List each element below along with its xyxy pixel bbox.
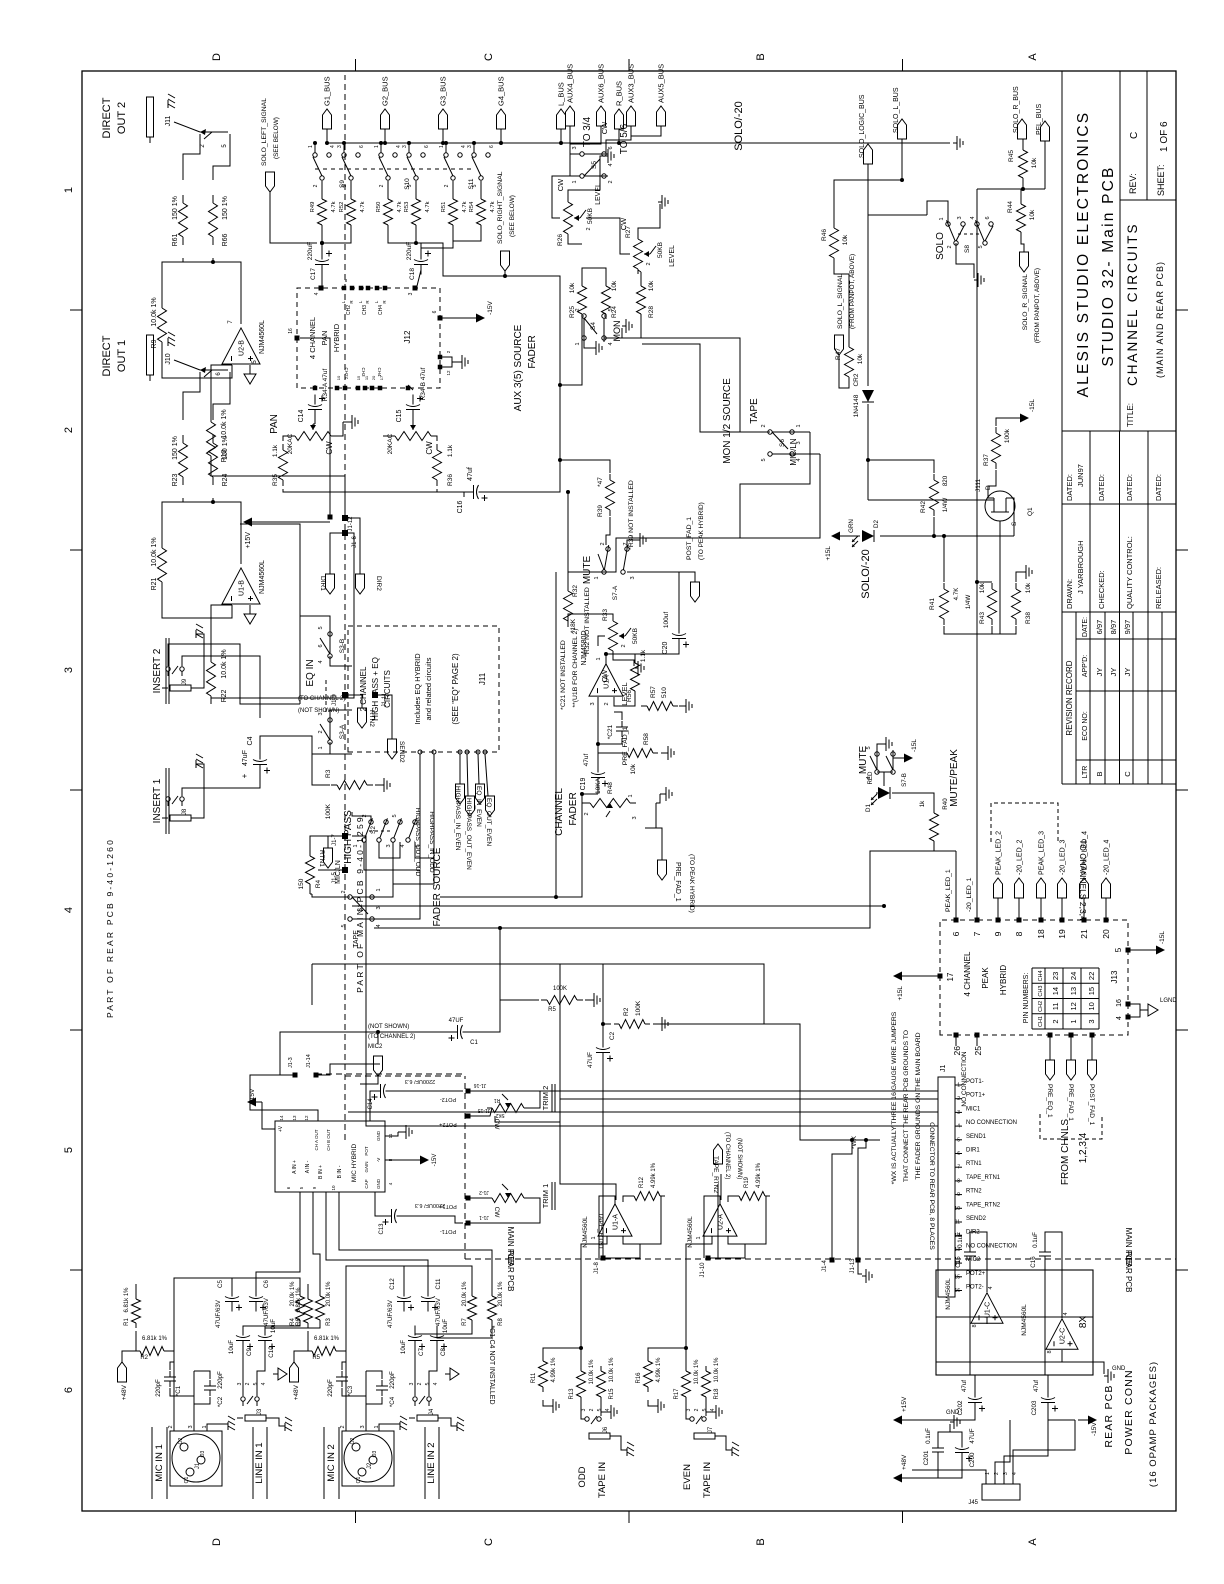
svg-text:4.7K: 4.7K xyxy=(953,587,960,601)
svg-text:J8: J8 xyxy=(182,808,188,815)
svg-text:100k: 100k xyxy=(1004,428,1011,443)
svg-text:REV:: REV: xyxy=(1128,173,1138,194)
capacitor C14 2200UF trim2 xyxy=(371,1090,381,1092)
capacitor C9 10uF xyxy=(242,1341,244,1351)
capacitor C15 0.1uF xyxy=(969,1256,971,1264)
svg-text:C18: C18 xyxy=(409,268,416,280)
svg-text:JY: JY xyxy=(1095,668,1104,677)
J1 pin 4 NO CONNECTION xyxy=(955,1125,962,1127)
svg-text:S6: S6 xyxy=(779,439,786,447)
long wire bus nx620 extension xyxy=(603,964,764,1024)
svg-text:10k: 10k xyxy=(569,282,576,293)
svg-text:NJM4560L: NJM4560L xyxy=(945,1278,952,1310)
svg-text:U2-A: U2-A xyxy=(718,1214,725,1230)
svg-text:CW: CW xyxy=(493,1207,500,1219)
svg-text:NJM4580D: NJM4580D xyxy=(581,630,588,665)
svg-text:R38: R38 xyxy=(1025,612,1032,624)
svg-text:10: 10 xyxy=(331,1185,336,1191)
svg-text:R1: R1 xyxy=(124,1318,130,1326)
resistor R66 xyxy=(212,237,214,245)
svg-text:8: 8 xyxy=(1014,931,1024,936)
flag -20_LED_3 xyxy=(1061,898,1063,920)
J13 pin 6 xyxy=(954,918,959,923)
jack J10 contacts xyxy=(200,369,228,371)
svg-text:R54: R54 xyxy=(469,201,475,212)
svg-text:A IN -: A IN - xyxy=(305,1160,311,1173)
svg-text:-15V: -15V xyxy=(1091,1422,1098,1436)
svg-text:PFL_BUS: PFL_BUS xyxy=(1036,104,1043,135)
svg-text:S7-B: S7-B xyxy=(901,773,908,787)
jack J7 xyxy=(694,1433,715,1439)
svg-text:REAR PCB: REAR PCB xyxy=(1124,1252,1133,1293)
ground at R38 right xyxy=(1016,572,1022,582)
svg-text:6: 6 xyxy=(608,146,614,149)
wire J1-14 mic2 xyxy=(316,1064,380,1075)
svg-text:S2: S2 xyxy=(370,826,377,834)
svg-text:4: 4 xyxy=(608,163,614,166)
power +15V arrow xyxy=(902,1419,912,1421)
J13 4-channel peak hybrid dashed box xyxy=(940,920,1128,1035)
flag TAPE_RTN2 xyxy=(714,1144,723,1164)
svg-text:1: 1 xyxy=(376,888,382,891)
svg-text:S11: S11 xyxy=(468,178,475,189)
svg-text:4.99k 1%: 4.99k 1% xyxy=(656,1357,662,1383)
wires tape rtn1 xyxy=(603,1024,611,1042)
svg-text:1: 1 xyxy=(439,145,445,148)
switch S1 xyxy=(348,895,352,899)
capacitor *C4 220pF xyxy=(381,1390,383,1396)
svg-text:2: 2 xyxy=(63,427,75,433)
capacitor C1 47uF xyxy=(448,1031,458,1033)
svg-text:+15L: +15L xyxy=(897,986,904,1001)
op-amp U1A xyxy=(589,664,623,696)
J13 pin 5 -15L xyxy=(1126,948,1131,953)
jack J9 xyxy=(170,685,191,691)
flags highpass/eq even xyxy=(456,784,465,804)
svg-text:20.0k 1%: 20.0k 1% xyxy=(326,1281,332,1307)
wire direct2 jack to resistors xyxy=(183,134,200,180)
svg-text:R8: R8 xyxy=(498,1318,504,1326)
svg-text:ODD: ODD xyxy=(577,1466,588,1487)
flag PFL_BUS xyxy=(1041,121,1050,141)
svg-text:J1-14: J1-14 xyxy=(306,1054,312,1068)
svg-text:2: 2 xyxy=(444,184,450,187)
svg-text:LEVEL: LEVEL xyxy=(595,183,602,205)
svg-text:S4: S4 xyxy=(590,322,597,330)
junction J1-6 xyxy=(342,530,348,536)
svg-text:10: 10 xyxy=(336,375,341,380)
J13 pin 17 +15L xyxy=(938,974,943,979)
resistors R4 R3 20.0k xyxy=(299,1320,301,1325)
svg-text:10k: 10k xyxy=(648,280,655,291)
power +15V at hybrid xyxy=(262,1102,275,1129)
switch gang dashed S9 S10 S11 xyxy=(315,168,474,170)
svg-text:R24: R24 xyxy=(611,306,618,318)
bus flag AUX4_BUS xyxy=(566,106,575,126)
svg-text:3: 3 xyxy=(386,844,392,847)
svg-text:2: 2 xyxy=(379,184,385,187)
svg-text:R43: R43 xyxy=(979,612,986,624)
title block drawn/checked grid xyxy=(1062,611,1176,613)
title block ALESIS cell xyxy=(1062,430,1176,432)
svg-text:1k: 1k xyxy=(919,800,926,807)
svg-text:LGND: LGND xyxy=(1160,998,1177,1004)
svg-text:1.1k: 1.1k xyxy=(447,444,454,457)
switch S7-B xyxy=(875,770,879,774)
op-amp U1-C xyxy=(971,1293,1003,1323)
svg-text:CH2: CH2 xyxy=(346,305,352,315)
svg-text:CW: CW xyxy=(556,178,565,191)
svg-text:20.0k 1%: 20.0k 1% xyxy=(498,1281,504,1307)
svg-text:DATED:: DATED: xyxy=(1154,474,1163,501)
svg-text:3: 3 xyxy=(402,145,408,148)
svg-text:POST_FAD_1: POST_FAD_1 xyxy=(1088,1084,1095,1126)
svg-text:150 1%: 150 1% xyxy=(172,196,179,220)
svg-text:4: 4 xyxy=(330,145,336,148)
J11 pins left edge xyxy=(418,750,422,754)
svg-text:+15V: +15V xyxy=(901,1396,908,1412)
capacitor C203 47uf xyxy=(1047,1403,1049,1413)
svg-text:16: 16 xyxy=(954,1288,960,1294)
svg-text:R36: R36 xyxy=(447,474,454,486)
ground gnd mid xyxy=(950,1421,954,1423)
svg-text:3: 3 xyxy=(318,712,324,715)
svg-text:TO 5/6: TO 5/6 xyxy=(619,123,630,154)
svg-text:6.81k 1%: 6.81k 1% xyxy=(124,1287,130,1313)
svg-text:CH3: CH3 xyxy=(362,305,368,315)
resistor R18 10.0k xyxy=(705,1397,707,1402)
earth triangle J4 xyxy=(445,1373,450,1375)
svg-text:J6: J6 xyxy=(603,1426,609,1433)
svg-text:C14: C14 xyxy=(368,1098,374,1110)
flag PEAK_LED_3 xyxy=(1040,898,1042,920)
power -15L at R37 xyxy=(996,418,1014,426)
wires U1-A xyxy=(581,1236,607,1370)
svg-text:DRAWN:: DRAWN: xyxy=(1065,579,1074,609)
svg-text:U1A: U1A xyxy=(604,675,611,689)
svg-text:U2-C: U2-C xyxy=(1060,1328,1067,1344)
resistor R32 not installed xyxy=(567,621,569,627)
svg-text:2: 2 xyxy=(694,1408,700,1411)
svg-text:S8: S8 xyxy=(964,245,971,253)
svg-text:100uf: 100uf xyxy=(663,612,670,628)
svg-text:50KB: 50KB xyxy=(657,242,664,258)
svg-text:C19: C19 xyxy=(580,777,587,790)
capacitor C200 47UF xyxy=(961,1453,963,1463)
svg-text:-15L: -15L xyxy=(1029,399,1036,412)
svg-text:4: 4 xyxy=(1063,1312,1069,1315)
svg-text:J1-10: J1-10 xyxy=(700,1262,706,1278)
pan pot R34-A cap wire xyxy=(314,418,316,424)
svg-text:1: 1 xyxy=(628,794,634,797)
svg-text:1: 1 xyxy=(318,746,324,749)
svg-text:Includes EQ HYBRID: Includes EQ HYBRID xyxy=(413,653,422,725)
svg-text:D: D xyxy=(211,53,223,61)
square J1-5 xyxy=(342,867,348,873)
svg-text:SOLO: SOLO xyxy=(935,232,946,260)
svg-text:2: 2 xyxy=(586,227,592,230)
capacitor *C3 220pF xyxy=(341,1381,343,1387)
svg-text:R42: R42 xyxy=(920,501,927,513)
svg-text:CH3: CH3 xyxy=(361,367,366,376)
svg-text:4: 4 xyxy=(261,1382,267,1385)
svg-text:POT: POT xyxy=(364,1146,369,1156)
svg-text:B: B xyxy=(755,1538,767,1545)
svg-text:7: 7 xyxy=(972,931,982,936)
grounds tape J7 xyxy=(648,1400,654,1406)
svg-text:2: 2 xyxy=(589,1408,595,1411)
input network wires to hybrid xyxy=(174,1278,232,1351)
svg-text:J12: J12 xyxy=(403,330,412,343)
svg-text:C5: C5 xyxy=(217,1279,224,1287)
svg-text:4.7k: 4.7k xyxy=(490,201,496,212)
svg-text:150: 150 xyxy=(298,878,305,889)
svg-text:R57: R57 xyxy=(650,686,657,698)
flag DIR2 xyxy=(356,574,365,594)
svg-text:THE FADER GROUNDS ON THE MAIN: THE FADER GROUNDS ON THE MAIN BOARD xyxy=(915,1032,922,1179)
wire R32 xyxy=(567,492,569,590)
switch S8 xyxy=(954,241,958,245)
chassis ground at J11 xyxy=(167,100,169,108)
svg-text:U1-C: U1-C xyxy=(985,1302,992,1318)
wire pot2 nets to J1 xyxy=(540,1090,938,1092)
switch S2 unit3 xyxy=(391,838,395,842)
svg-text:3: 3 xyxy=(467,145,473,148)
svg-text:R18: R18 xyxy=(714,1388,720,1400)
svg-text:R46: R46 xyxy=(821,229,828,241)
svg-text:J1-6: J1-6 xyxy=(352,536,358,548)
op-amp U2-A xyxy=(703,1204,737,1236)
svg-text:C14: C14 xyxy=(298,409,305,422)
svg-text:C12: C12 xyxy=(389,1278,396,1290)
switch S2 unit2 xyxy=(377,838,381,842)
svg-text:2: 2 xyxy=(340,1425,346,1428)
svg-text:4: 4 xyxy=(605,1408,611,1411)
wires U2 feedback xyxy=(162,347,232,378)
svg-text:SOLO_R_SIGNAL: SOLO_R_SIGNAL xyxy=(1022,274,1029,331)
svg-text:100K: 100K xyxy=(325,803,332,819)
svg-text:INSERT 2: INSERT 2 xyxy=(152,648,163,693)
wire tape bus xyxy=(560,963,603,965)
svg-text:MIC/LN: MIC/LN xyxy=(335,860,342,884)
resistor R12 4.99k xyxy=(629,1195,634,1197)
wires R27 xyxy=(638,270,641,272)
svg-text:10uF: 10uF xyxy=(400,1340,407,1354)
resistor R56 1.1k xyxy=(634,691,636,696)
svg-text:8: 8 xyxy=(957,1178,960,1184)
svg-text:R58: R58 xyxy=(643,733,650,745)
svg-text:C1: C1 xyxy=(470,1040,478,1046)
svg-text:CH A OUT: CH A OUT xyxy=(314,1129,319,1150)
svg-text:*C4: *C4 xyxy=(389,1396,396,1407)
resistor R52 4.7k xyxy=(350,225,352,230)
svg-text:47UF: 47UF xyxy=(969,1428,976,1443)
svg-text:MIC HYBRID: MIC HYBRID xyxy=(351,1144,358,1183)
resistor R24 xyxy=(212,477,214,485)
svg-text:R34-A 47uf: R34-A 47uf xyxy=(322,369,329,402)
svg-text:1: 1 xyxy=(596,657,602,660)
ground between pan pots xyxy=(343,421,348,423)
svg-text:25: 25 xyxy=(973,1046,983,1056)
svg-text:EQ IN: EQ IN xyxy=(305,659,316,686)
wire C13 to hybrid xyxy=(375,1192,386,1216)
svg-text:U2-B: U2-B xyxy=(239,340,246,356)
wires R26 to S5 xyxy=(568,236,582,244)
svg-text:16: 16 xyxy=(288,328,294,334)
square J1-7 xyxy=(342,833,348,839)
svg-text:TAPE IN: TAPE IN xyxy=(702,1462,713,1498)
svg-text:10k: 10k xyxy=(857,353,864,364)
flag SOLO_L_BUS xyxy=(898,119,907,139)
svg-text:-20_LED_2: -20_LED_2 xyxy=(1017,839,1024,875)
resistor R13 10.0k xyxy=(580,1397,582,1402)
svg-text:FADER: FADER xyxy=(527,335,538,368)
svg-text:R12: R12 xyxy=(639,1176,645,1188)
svg-text:G3_BUS: G3_BUS xyxy=(439,76,448,106)
wires tape outs xyxy=(560,964,616,1200)
svg-text:TITLE:: TITLE: xyxy=(1126,403,1135,427)
svg-text:B: B xyxy=(755,53,767,60)
transistor Q1 J111 xyxy=(985,491,1015,521)
J13 pins 26 25 no connection xyxy=(954,1033,959,1038)
bus flag G3_BUS xyxy=(442,129,444,143)
svg-text:3: 3 xyxy=(630,576,636,579)
wire s6 to fader xyxy=(740,432,810,538)
svg-text:S10: S10 xyxy=(404,178,411,190)
svg-text:20KAC: 20KAC xyxy=(287,433,294,454)
svg-text:C9: C9 xyxy=(246,1347,253,1355)
ground at R3 xyxy=(375,784,380,786)
capacitor C201 0.1uF xyxy=(937,1452,939,1460)
svg-text:CH4: CH4 xyxy=(377,367,382,376)
svg-text:1.1k: 1.1k xyxy=(640,649,647,662)
svg-text:J45: J45 xyxy=(968,1500,978,1506)
svg-text:4: 4 xyxy=(376,924,382,927)
svg-text:J1-2: J1-2 xyxy=(479,1189,489,1195)
bus rail wire xyxy=(327,142,950,144)
svg-text:15: 15 xyxy=(1087,987,1096,995)
svg-text:EQ_IN_EVEN: EQ_IN_EVEN xyxy=(475,786,482,827)
ground at bus rail end xyxy=(953,142,957,144)
svg-text:*C1: *C1 xyxy=(175,1385,182,1396)
svg-text:AUX5_BUS: AUX5_BUS xyxy=(657,64,666,103)
svg-text:Q1: Q1 xyxy=(1027,507,1034,516)
svg-text:0.1uF: 0.1uF xyxy=(957,1232,964,1248)
wires power caps xyxy=(912,1408,975,1420)
svg-text:C200: C200 xyxy=(969,1452,976,1467)
wire long hp xyxy=(310,893,312,895)
svg-text:3: 3 xyxy=(409,1382,415,1385)
svg-text:2: 2 xyxy=(947,245,953,248)
J12 gnd pins 2 12 xyxy=(438,355,443,360)
wire R37 to Q1 xyxy=(988,470,996,486)
power -15V at hybrid xyxy=(385,1159,415,1161)
svg-text:O2: O2 xyxy=(350,1437,356,1444)
svg-text:6: 6 xyxy=(489,145,495,148)
switch S7-A xyxy=(602,570,606,574)
svg-text:1: 1 xyxy=(353,844,359,847)
svg-text:3: 3 xyxy=(796,441,802,444)
svg-text:47uF: 47uF xyxy=(242,750,249,766)
svg-text:10: 10 xyxy=(1087,1002,1096,1010)
svg-text:R66: R66 xyxy=(222,233,229,246)
svg-text:CH B OUT: CH B OUT xyxy=(326,1129,331,1151)
svg-text:10.0k 1%: 10.0k 1% xyxy=(714,1357,720,1383)
flag SOLO_RIGHT_SIGNAL xyxy=(501,251,510,271)
svg-text:47uf: 47uf xyxy=(583,753,590,766)
switch pole col 6 xyxy=(479,176,483,180)
ground at R58 xyxy=(661,752,664,754)
svg-text:A IN +: A IN + xyxy=(292,1160,298,1174)
svg-text:150 1%: 150 1% xyxy=(222,196,229,220)
resistor R5 6.81k vertical xyxy=(307,1350,312,1352)
svg-text:10.0k 1%: 10.0k 1% xyxy=(221,649,228,678)
ground near S7-B xyxy=(877,744,882,754)
svg-text:PRE_FAD_1: PRE_FAD_1 xyxy=(674,862,681,902)
svg-text:10: 10 xyxy=(954,1206,960,1212)
svg-text:CHANNEL CIRCUITS: CHANNEL CIRCUITS xyxy=(1125,222,1140,386)
svg-text:C: C xyxy=(483,53,495,61)
svg-text:C7: C7 xyxy=(418,1347,425,1355)
svg-text:PEAK_LED_3: PEAK_LED_3 xyxy=(1039,831,1046,875)
wire main bundle 1 xyxy=(312,963,560,965)
resistor R4 150 xyxy=(309,884,311,890)
wire S7B to D1 xyxy=(883,772,885,786)
svg-text:PAN: PAN xyxy=(269,414,280,434)
svg-text:U1-B: U1-B xyxy=(239,580,246,596)
wires U1B feedback xyxy=(162,587,232,618)
svg-text:510: 510 xyxy=(661,687,668,698)
svg-text:8/97: 8/97 xyxy=(1109,620,1118,635)
svg-text:2: 2 xyxy=(761,424,767,427)
svg-text:SEND1: SEND1 xyxy=(966,1134,987,1140)
switch S4 xyxy=(582,314,586,318)
svg-text:FADER SOURCE: FADER SOURCE xyxy=(432,847,443,926)
svg-text:2: 2 xyxy=(313,184,319,187)
ground at R57 xyxy=(679,705,682,707)
svg-text:CW: CW xyxy=(493,1119,500,1131)
svg-text:INSERT 1: INSERT 1 xyxy=(152,778,163,823)
square J1-11 xyxy=(372,692,378,698)
svg-text:CH4: CH4 xyxy=(378,305,384,315)
svg-text:C: C xyxy=(483,1538,495,1546)
svg-text:C13: C13 xyxy=(379,1223,385,1235)
J13 pin 8 xyxy=(1017,918,1022,923)
switch pole col 2 xyxy=(349,176,353,180)
svg-text:R40: R40 xyxy=(942,798,949,810)
resistor R24 10k xyxy=(605,314,607,319)
resistor R3 100K xyxy=(331,784,337,786)
wire mic1 net to J1 xyxy=(348,1111,938,1113)
resistor R35 1.1k xyxy=(282,480,284,486)
svg-text:C2: C2 xyxy=(609,1031,616,1040)
svg-text:15: 15 xyxy=(356,375,361,380)
svg-text:*47: *47 xyxy=(597,477,604,487)
capacitor C16 0.1uF xyxy=(1044,1256,1046,1264)
svg-text:2 CHANNEL: 2 CHANNEL xyxy=(359,666,368,711)
svg-text:4.99k 1%: 4.99k 1% xyxy=(756,1162,762,1188)
svg-text:LINE IN 2: LINE IN 2 xyxy=(426,1442,437,1483)
svg-text:PRE_FAD_1: PRE_FAD_1 xyxy=(1067,1084,1074,1121)
svg-text:10k: 10k xyxy=(979,582,986,593)
svg-text:MIC1: MIC1 xyxy=(966,1106,981,1112)
triangle gnd at U2 input xyxy=(249,365,251,374)
svg-text:4.7k: 4.7k xyxy=(331,201,337,212)
svg-text:C15: C15 xyxy=(396,409,403,422)
op-amp U2-C xyxy=(1046,1319,1078,1349)
J1 pin 1 POT1- xyxy=(955,1084,962,1086)
flag SOLO_R_SIGNAL xyxy=(1020,252,1029,272)
